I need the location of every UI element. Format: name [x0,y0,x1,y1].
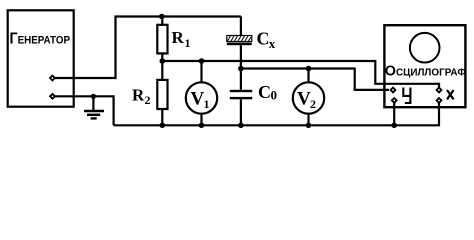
junction dot at ground [91,94,96,99]
svg-text:V: V [191,89,205,110]
junction dot top wire / R1 [159,14,165,20]
terminal diamond upper (generator) [49,74,56,81]
wire: R chain vertical [161,17,163,126]
svg-text:R: R [132,86,145,105]
oscilloscope box [384,25,465,107]
voltmeter V2 [293,69,324,126]
svg-text:2: 2 [145,93,151,107]
junction dot V2 bottom [306,123,312,129]
wire: generator lower terminal to bottom rail [53,96,114,125]
wire: mid wire net A to oscilloscope x input [162,61,439,90]
svg-text:Генератор: Генератор [10,31,71,48]
svg-text:2: 2 [310,97,316,111]
svg-text:Осциллограф: Осциллограф [385,63,466,79]
svg-text:1: 1 [204,97,210,111]
label x terminal [447,90,454,99]
svg-text:x: x [269,36,276,51]
junction dot Cx/C0 node [238,66,244,72]
terminal diamond y lower [391,97,398,104]
svg-text:0: 0 [271,88,278,103]
bottom rail wire [114,100,439,125]
capacitor Cx [227,17,252,69]
oscilloscope CRT circle [410,33,440,63]
wire: lower y terminal to rail [393,100,395,125]
terminal diamond x upper [435,86,442,93]
junction dot C0 bottom [238,123,244,129]
wire: generator upper terminal to top wire [52,17,241,79]
terminal diamond x lower [435,97,442,104]
resistor R2 [157,80,167,109]
svg-text:C: C [258,82,271,102]
generator box [8,10,74,106]
resistor R1 [157,25,167,54]
wire: y input lead [384,89,389,91]
junction dot R1/R2 node [160,58,166,64]
terminal diamond lower (generator) [49,93,56,100]
terminal diamond y upper [389,86,396,93]
label y terminal [403,88,410,104]
junction dot V1 top [199,58,205,64]
junction dot R2 bottom [160,123,166,129]
wire: net B to oscilloscope y input [241,69,389,90]
svg-text:V: V [297,89,311,110]
junction dot V1 bottom [199,123,205,129]
junction dot y-terminal ground [391,123,397,129]
junction dot V2 top [306,66,312,72]
svg-text:C: C [257,28,270,48]
svg-text:R: R [172,28,185,47]
voltmeter V1 [186,61,217,125]
capacitor C0 [230,69,252,126]
ground [84,96,104,118]
svg-text:1: 1 [185,36,191,50]
